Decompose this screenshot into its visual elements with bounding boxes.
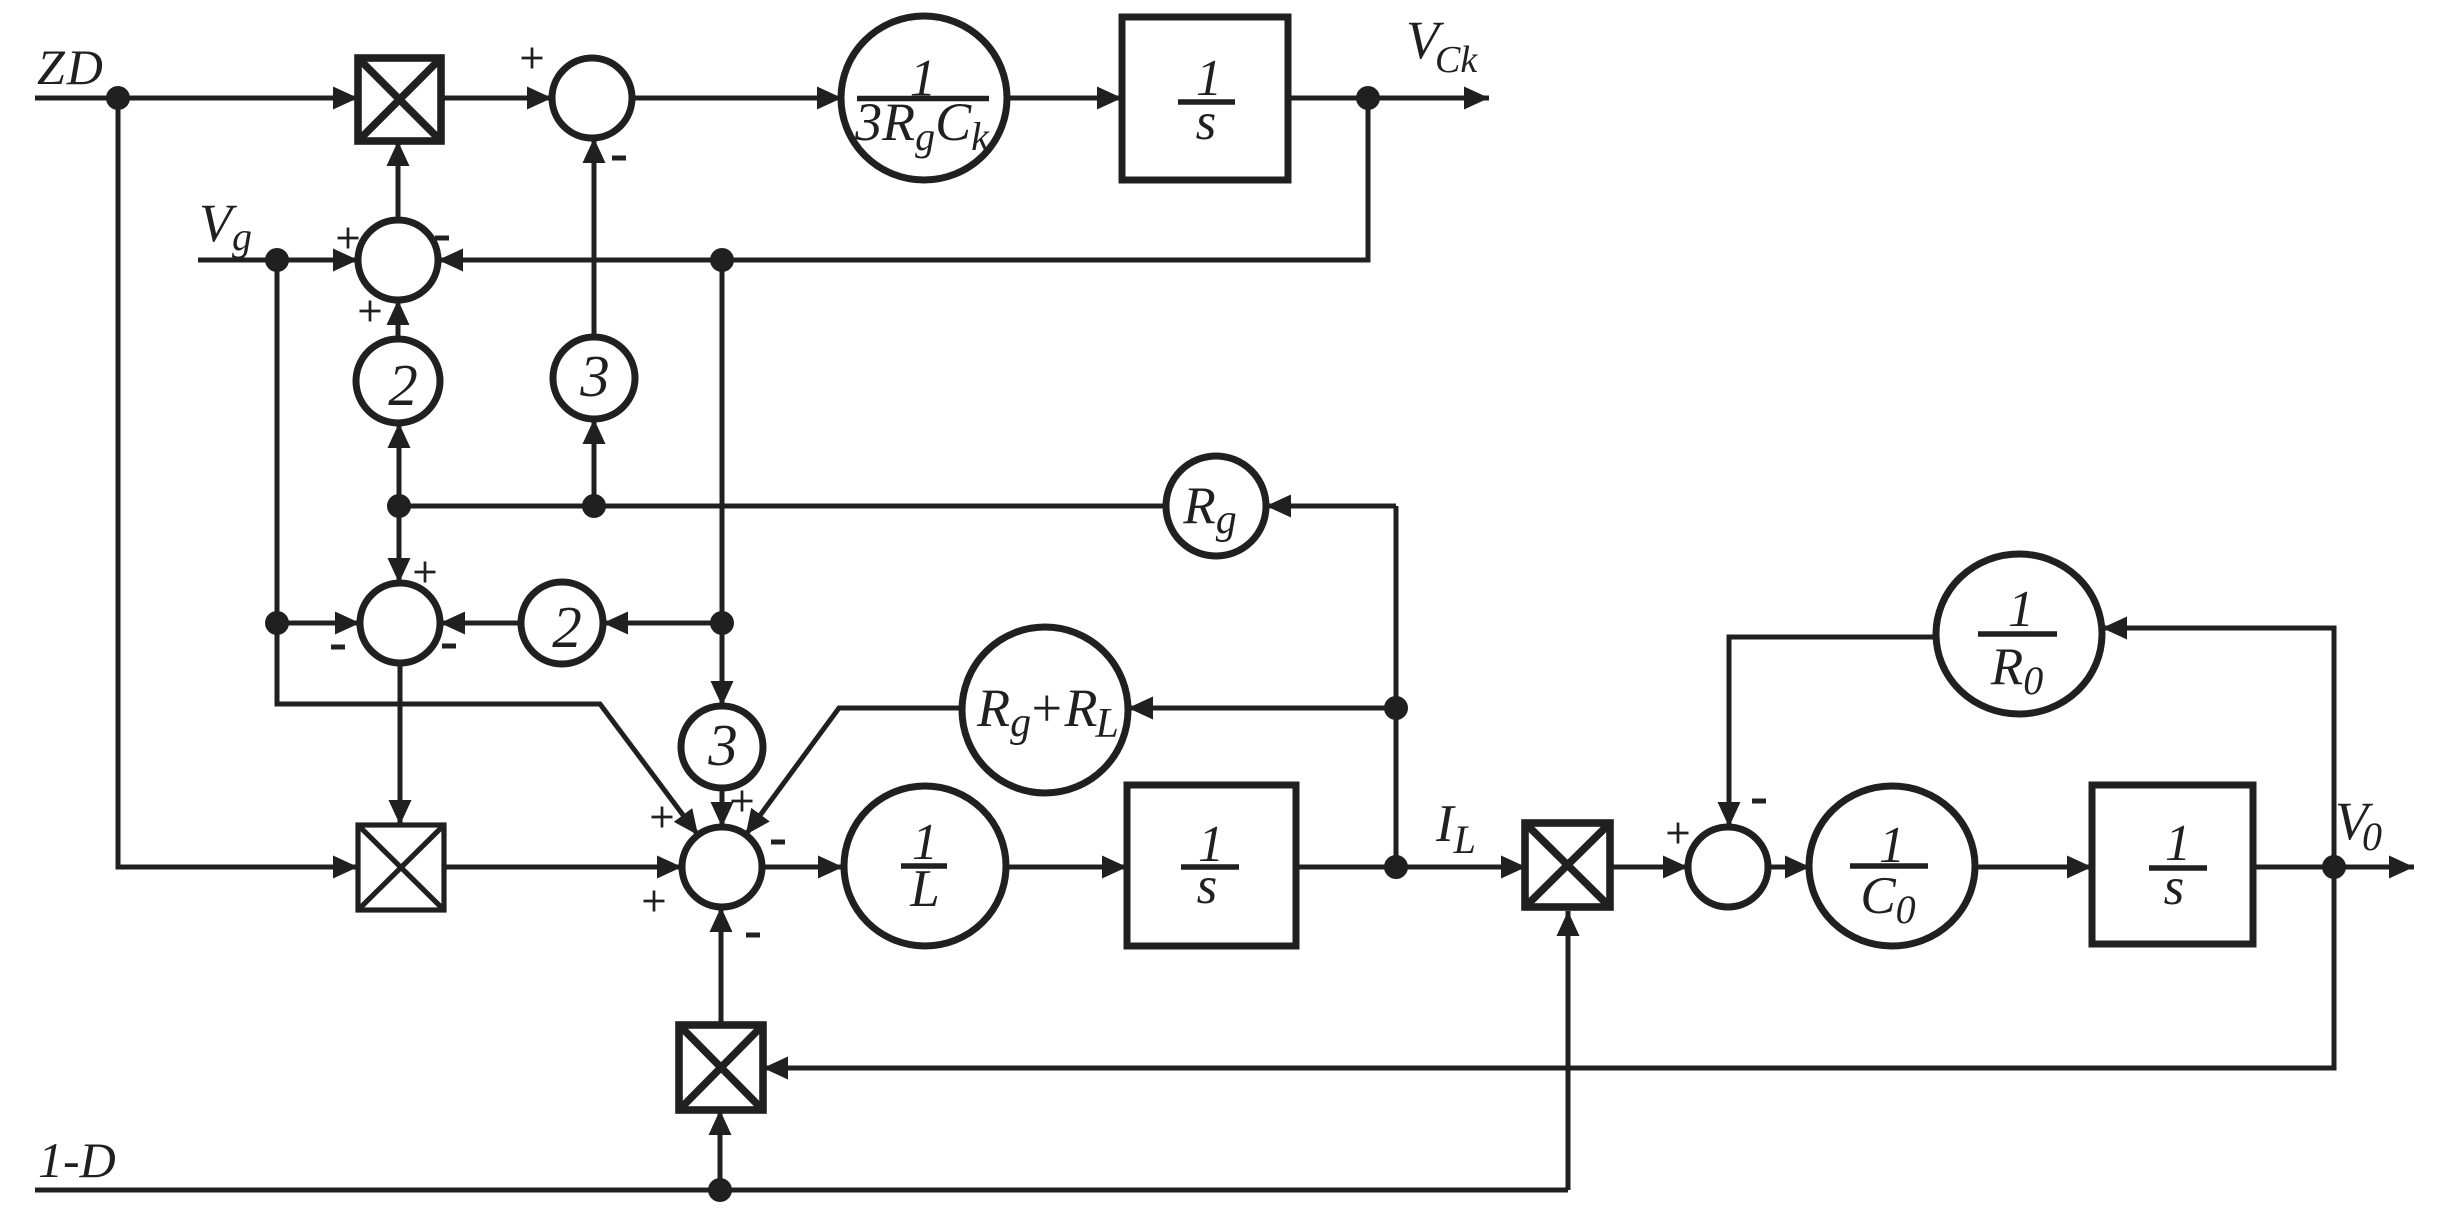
svg-text:Rg+RL: Rg+RL: [976, 678, 1119, 747]
svg-text:3: 3: [579, 343, 610, 409]
svg-text:L: L: [909, 860, 939, 918]
svg-text:ZD: ZD: [37, 39, 105, 95]
svg-text:s: s: [1196, 93, 1217, 151]
svg-text:2: 2: [388, 352, 418, 418]
svg-text:1: 1: [1879, 817, 1905, 874]
svg-text:1-D: 1-D: [38, 1132, 116, 1188]
svg-text:2: 2: [552, 594, 582, 660]
svg-text:1: 1: [2008, 581, 2034, 638]
svg-text:3: 3: [707, 712, 738, 778]
svg-text:s: s: [1197, 857, 1218, 915]
svg-text:s: s: [2164, 858, 2185, 916]
